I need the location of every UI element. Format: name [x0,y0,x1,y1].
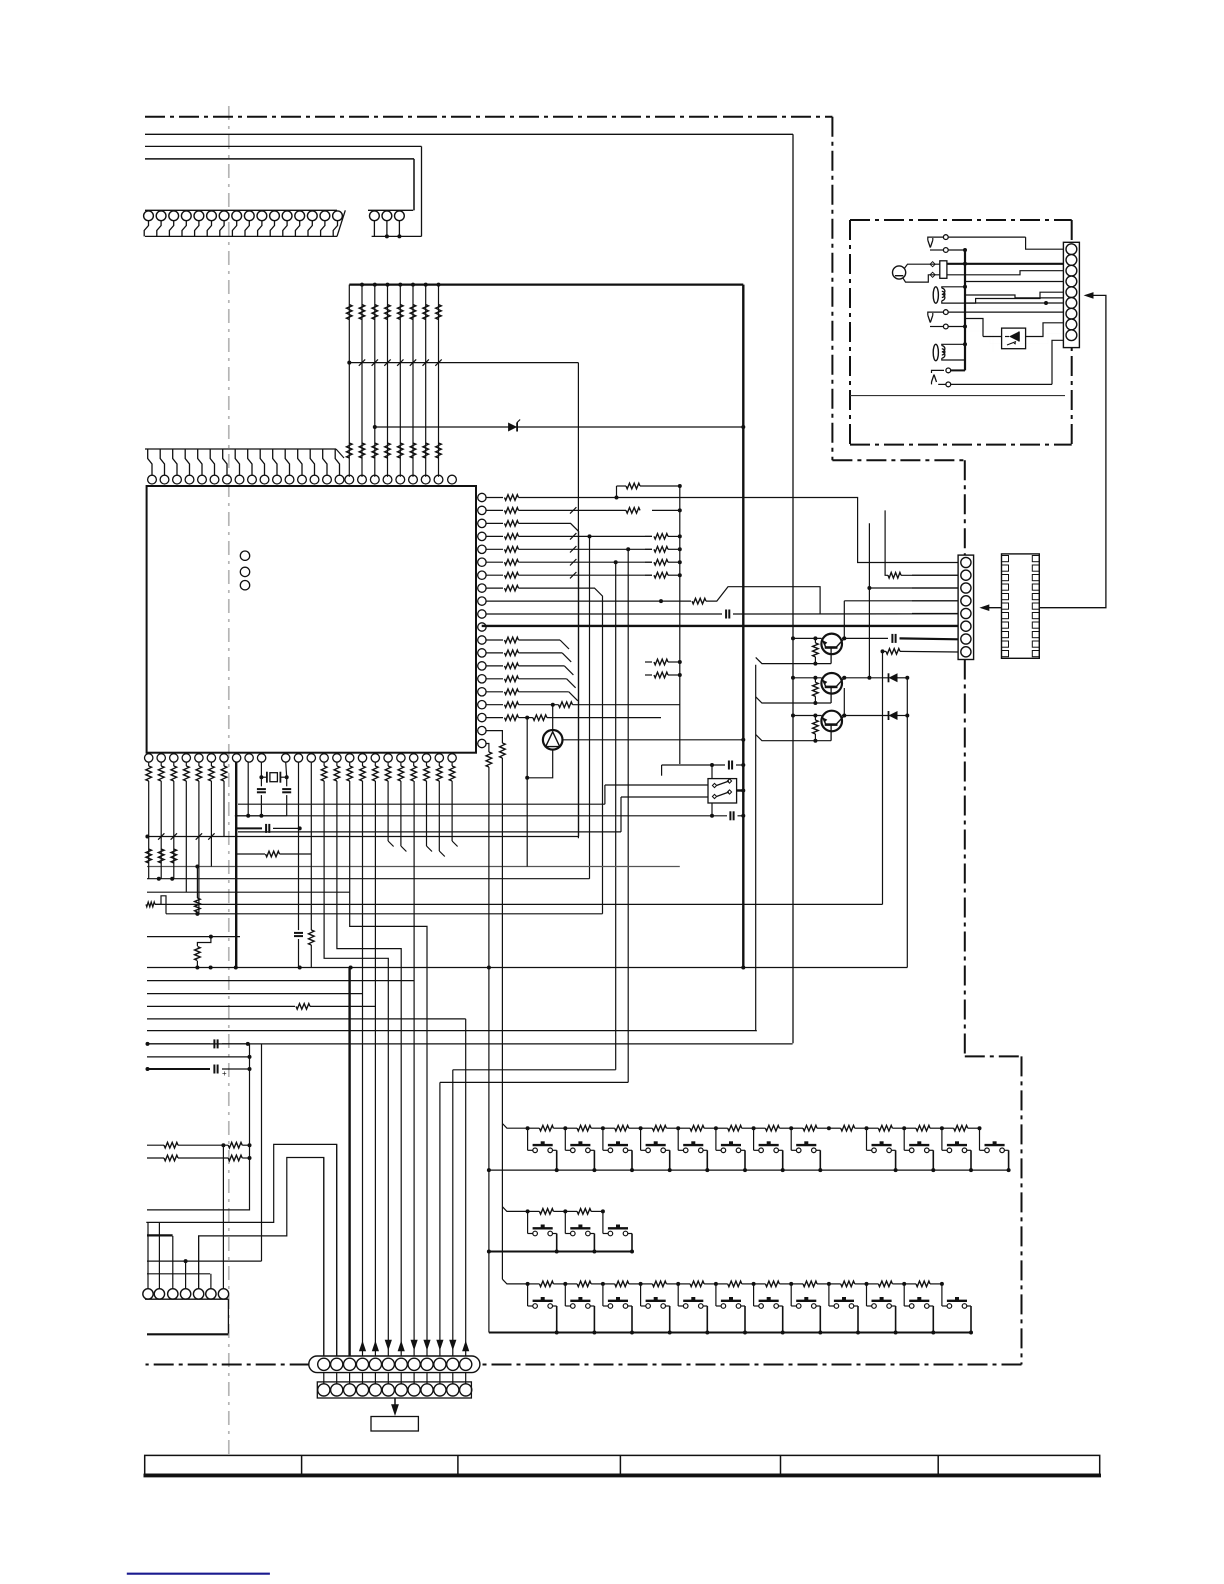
key board border dash-dot vertical upper [964,460,966,555]
wire staircase st3 [350,781,427,1358]
wire CN3 pin1 left feed [199,1158,324,1359]
wire bus h878 [147,877,590,881]
wire bus h967 long [147,966,907,970]
jack unit inner gray line [850,395,1065,397]
microphone MIC1 [893,264,940,282]
connector CN4 (7-pin left) [143,1222,229,1334]
key switch row 2 (3 keys) [487,1207,634,1254]
connector CN1 (top left pin row) [144,210,346,236]
resistor stub left y904 [146,902,161,907]
resistor R23 v [309,930,315,968]
capacitor C7 v [294,933,303,968]
wire v882 up [882,651,884,904]
wire bus h1006 [147,1004,375,1010]
photocoupler PC1 [965,319,1063,349]
wire bus h1080 link [440,1081,628,1083]
resistor array on IC right pins 12-19 [485,637,577,701]
key board border dash-dot vertical lower [964,660,966,1057]
wire nest h1209 [147,1158,250,1210]
wire top horizontal 2 [145,145,422,147]
capacitor C11 to CN5 pin7 [892,634,958,643]
jack J2 contacts [928,310,1064,329]
wire IC pin20 bend down [485,744,489,753]
wire jack pin6 route [943,301,1063,309]
wire pin-r23 drop [310,762,312,930]
wire CN5 pin3 feed [867,523,958,678]
reset IC U2 (circle-triangle) [525,705,745,867]
wire v756 up [756,665,757,1031]
resistor R21 v [195,867,201,916]
wire staircase st2 [337,781,401,1358]
diode D2 [867,673,909,682]
wire link CN6 to jack box [1039,295,1106,607]
wire Q1 collector up [843,601,845,639]
wire bus h980 [147,980,414,982]
resistor array on IC right pins 1-8 [485,495,660,591]
IC U1 index marks (3 circles) [240,551,249,590]
bottom border dash-dot left segment [146,1364,310,1366]
key board border dash-dot right vertical [1021,1056,1023,1364]
slide switch S30 (2-pole) [605,763,745,818]
jack unit bold bus [963,248,967,370]
wire bus h993 [147,993,363,995]
bottom border dash-dot right segment [480,1364,1022,1366]
capacitor C10 y765 [662,761,746,776]
wire v223 down [222,1145,224,1289]
power bus right drop (bold) [742,285,744,968]
resistor array under IC bottom pins [146,762,458,914]
wire with resistor y598 [485,587,820,614]
resistor R30 to CN5 pin8 [881,649,959,655]
transistor Q3 [756,711,888,743]
svg-text:+: + [222,1069,227,1078]
wire bus h1018 [147,1018,466,1020]
wire bundle to bottom connector CN3 [324,781,466,1358]
capacitor C2 on line to CN5 pin5 [485,610,958,619]
wire IC pin1 to CN5 [660,498,958,563]
connector CN2 (3-pin group) [368,210,422,238]
wire staircase st1 [324,781,388,1358]
signal direction arrows at CN3 [359,1340,469,1352]
wire step left a [161,896,166,914]
jack J1 contacts [928,235,1064,253]
diode D3 [889,711,910,720]
resistor below IC right corner a [486,752,492,767]
remote/mic unit border dash-dot [850,220,1072,445]
IC U1 right pin row [478,493,486,747]
crystal X1 with load capacitors [235,762,291,818]
wire v249 link [249,1044,251,1069]
wire bus h832 [238,797,621,832]
wire mic return route [965,295,1063,298]
wire vertical to CN2 top [413,159,415,210]
title block table [144,1455,1102,1475]
wire nest h1261 [147,1259,262,1263]
wire bus h913 [166,912,603,916]
wire vertical to transistor base bus [792,134,794,1043]
resistors on IC pin 17 [485,702,679,708]
chassis border dash-dot right vertical [831,117,833,460]
transistor Q1 [756,634,888,666]
wire vertical right of CN1 [421,146,423,236]
wire v249 link2 [249,1069,251,1158]
IC U1 top pin row [145,449,456,484]
resistor below IC right corner b [500,743,506,758]
wire Q3 collector stub [843,688,845,716]
connector CN3 (12-pin rounded) [309,1356,480,1373]
wire bus h1043 [147,1042,793,1046]
wire jack route to pin9 [965,331,1063,352]
key switch row 3 (12 keys) [489,1279,973,1334]
ribbon cable connector CN6 [1002,554,1040,658]
wire bold IC pin11 to CN5 pin6 [482,625,958,627]
arrow into jack connector [1084,292,1094,299]
resistor R20 y854 [236,851,311,857]
capacitor C8 y1043 [146,1039,250,1048]
jack J3 contacts [932,340,1064,387]
wire bus h892 [147,891,350,893]
arrow into CN5 [979,604,1001,611]
key board border dash-dot horizontal jog [965,1055,1022,1057]
wire jack pin4 route [965,281,1063,283]
transistor Q2 [756,673,888,705]
wire bus h816 [236,815,727,817]
connector CN7 (9-pin jack board) [1063,242,1079,347]
wire bus h836 hop [145,835,578,839]
wire nest bold h1235 [147,1234,173,1236]
wire bus h866 gray [147,865,680,869]
connector CN8 (12-pin header below) [317,1373,472,1398]
resistor pair row y1145 [147,1142,252,1148]
resistor R22 v [195,935,213,970]
board fold boundary line (light gray) [228,106,230,1455]
resistor array second stage to bus [615,483,682,764]
wire bold to CN3 pin3 [348,968,350,1359]
resistor ladder R-array (8 pull-ups upper+lower) [347,283,442,477]
wire bus h936 stub [147,936,240,938]
diode D1 on supply sense line [373,420,746,432]
wire bus h1068 link [453,1069,616,1071]
mic coupling component [930,261,1063,279]
hyperlink underline (blue) [127,1573,270,1575]
capacitor C9 electrolytic y1069 [146,1065,252,1079]
wire v261 up [261,1044,263,1261]
capacitor C5 y828 [236,824,302,833]
wire bold IC pin7 down [235,762,237,967]
inductor L2 (ferrite bead) [933,344,965,360]
wire bus h904 [155,903,883,905]
wire nest h1273 [147,1273,210,1275]
connector CN5 (8-pin to key unit) [912,555,974,659]
IC U1 microcontroller body [147,486,476,753]
wire CN5 pin4 feed [844,600,958,602]
arrow to ribbon label [391,1398,399,1416]
wire top horizontal 3 [145,158,414,160]
wire top horizontal 1 [145,133,793,135]
key switch row 1 (12 keys with resistors) [487,1124,1011,1173]
destination label box [371,1417,418,1432]
wire IC pin19 bend down [485,731,502,743]
chassis border dash-dot top [145,116,832,118]
resistors on IC pin 18 [485,715,661,721]
wire h1056 [147,1055,252,1059]
wire bundle IC right pins descending [519,523,631,1082]
IC U1 bottom pin row [145,754,457,762]
wire key feed v488 [488,767,490,1333]
wire CN5 pin2 feed [885,510,958,578]
chassis border dash-dot jog to key section [832,459,964,461]
wire jack pin3 route [947,271,1064,275]
wire bus h1030 [147,1030,757,1032]
wire pin-c7 drop [298,762,300,930]
inductor L1 (ferrite bead) [933,287,1063,303]
wire bus with crossover hops [347,359,578,838]
wire key feed v502 [501,758,503,1279]
wire bus h804 [238,785,605,804]
power bus top (bold) [349,284,743,286]
resistor pair row y1158 [147,1155,252,1161]
capacitor C6 y816 [730,811,745,820]
wire CN3 pin2 left feed [146,1144,336,1358]
wire v907 diodes down [906,677,908,968]
